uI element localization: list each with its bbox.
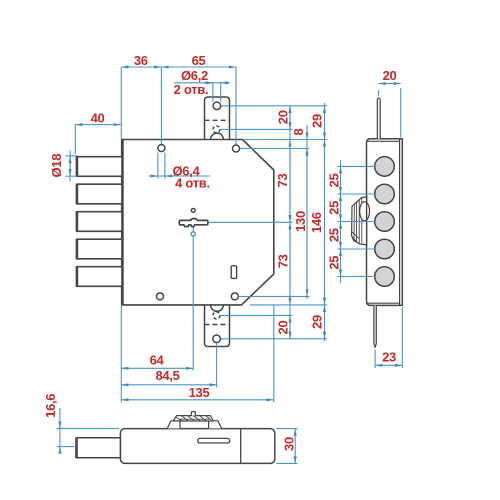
small pin hole above keyhole bbox=[191, 209, 195, 213]
side latch bbox=[352, 195, 370, 246]
svg-text:40: 40 bbox=[91, 110, 105, 125]
svg-text:30: 30 bbox=[281, 437, 296, 451]
ext lines top bbox=[120, 67, 122, 139]
side dim 23 bbox=[374, 350, 376, 369]
bottom view bolt bbox=[76, 438, 120, 458]
bolt tips thick bbox=[76, 157, 78, 287]
svg-text:73: 73 bbox=[275, 174, 290, 188]
bottom view latch knob bbox=[167, 412, 221, 429]
bottom faceplate tab back bbox=[205, 305, 230, 347]
bolt 4 bbox=[77, 239, 123, 259]
dim 40 bbox=[74, 125, 76, 154]
dim d18 bbox=[66, 155, 78, 157]
dim 135 bbox=[121, 399, 273, 401]
dim 30 bbox=[277, 428, 298, 430]
svg-text:64: 64 bbox=[150, 352, 165, 367]
bottom cylinder arc bbox=[211, 305, 224, 311]
svg-text:Ø6,2: Ø6,2 bbox=[181, 68, 208, 83]
bottom view bolt tip thick bbox=[75, 438, 77, 458]
svg-text:25: 25 bbox=[326, 201, 341, 215]
dim 64 bbox=[121, 367, 193, 369]
svg-text:8: 8 bbox=[291, 128, 306, 135]
top faceplate tab back bbox=[205, 97, 230, 140]
bottom view case bbox=[120, 429, 274, 464]
bottom rod pin bbox=[374, 305, 376, 347]
svg-text:20: 20 bbox=[383, 68, 397, 83]
dim 36 line bbox=[121, 66, 161, 68]
bottom view slot bbox=[198, 438, 230, 443]
bolt end circle 4 bbox=[375, 239, 395, 259]
chain x324.5 bbox=[324, 103, 326, 341]
top rod pin bbox=[377, 98, 380, 139]
bolt end circle 3 bbox=[375, 212, 395, 232]
hole bottom-right bbox=[231, 293, 238, 300]
stop slot bbox=[231, 266, 236, 279]
bottom tab hole bbox=[213, 335, 221, 343]
svg-text:25: 25 bbox=[326, 174, 341, 188]
tab axis ext bbox=[216, 343, 218, 387]
side view inner edges bbox=[367, 139, 400, 306]
svg-text:84,5: 84,5 bbox=[155, 368, 179, 383]
svg-text:20: 20 bbox=[275, 110, 290, 124]
svg-text:4 отв.: 4 отв. bbox=[175, 175, 210, 190]
right ext lines bbox=[221, 105, 327, 107]
dim d6.4 bbox=[157, 153, 159, 179]
body left edge thick bbox=[121, 140, 124, 305]
svg-text:2 отв.: 2 отв. bbox=[174, 82, 209, 97]
dim 16.6 bbox=[57, 428, 119, 430]
top tab hole bbox=[213, 102, 221, 110]
top tab dashed circle bbox=[213, 126, 220, 133]
svg-text:146: 146 bbox=[309, 212, 324, 233]
hole top-left bbox=[158, 145, 165, 152]
chain x307 bbox=[306, 125, 308, 299]
hole top-right bbox=[233, 145, 240, 152]
bottom view divider bbox=[240, 429, 242, 464]
top cylinder arc bbox=[211, 133, 224, 139]
keyhole axis ext bbox=[192, 228, 194, 371]
svg-text:23: 23 bbox=[382, 350, 396, 365]
hole bottom-left bbox=[157, 293, 164, 300]
svg-text:29: 29 bbox=[309, 315, 324, 329]
side dim 20 bbox=[378, 90, 380, 97]
svg-text:20: 20 bbox=[275, 321, 290, 335]
svg-text:29: 29 bbox=[310, 114, 325, 128]
top tab dashed line bbox=[205, 119, 230, 121]
bottom tab dashed circle bbox=[213, 312, 220, 319]
keyhole bbox=[179, 219, 208, 227]
bottom tab dashed line bbox=[205, 324, 230, 326]
dim 65 line bbox=[161, 66, 236, 68]
svg-text:16,6: 16,6 bbox=[43, 394, 58, 418]
small hole below keyhole bbox=[191, 232, 195, 236]
side view faceplate outer bbox=[367, 139, 403, 306]
bolt 2 bbox=[77, 184, 123, 204]
svg-text:73: 73 bbox=[275, 254, 290, 268]
dim d6.2 bbox=[212, 83, 214, 102]
svg-text:36: 36 bbox=[134, 53, 148, 68]
svg-text:25: 25 bbox=[326, 256, 341, 270]
bolt end circle 5 bbox=[375, 267, 395, 287]
svg-text:25: 25 bbox=[326, 228, 341, 242]
lock body main view bbox=[122, 140, 274, 305]
bolt 5 bbox=[77, 267, 123, 287]
bolt end circle 1 bbox=[375, 157, 395, 177]
side circle ext lines bbox=[338, 165, 377, 167]
svg-text:135: 135 bbox=[189, 385, 210, 400]
svg-text:65: 65 bbox=[192, 53, 206, 68]
bolt 3 bbox=[77, 212, 123, 232]
chain x290 bbox=[289, 106, 291, 339]
right edge ext bbox=[273, 306, 275, 403]
bolt end circle 2 bbox=[375, 184, 395, 204]
dim 84.5 bbox=[121, 384, 216, 386]
bolt 1 bbox=[77, 157, 123, 177]
side chain 25 bbox=[340, 160, 342, 283]
svg-text:130: 130 bbox=[293, 211, 308, 232]
svg-text:Ø18: Ø18 bbox=[49, 154, 64, 178]
left edge ext bbox=[120, 306, 122, 403]
